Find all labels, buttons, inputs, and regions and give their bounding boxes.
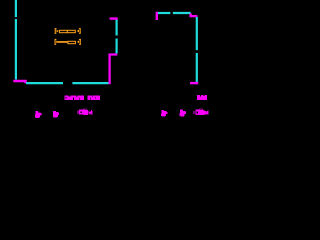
wire left vertical lower (cyan) bbox=[15, 19, 17, 80]
wire mid vertical lower segment (cyan) bbox=[115, 39, 117, 54]
component R1 (upper orange resistor-like symbol) bbox=[55, 28, 81, 34]
terminal left of top wire (magenta) bbox=[156, 12, 158, 20]
wire right vertical upper (cyan) bbox=[196, 17, 198, 50]
wire left vertical upper (cyan) bbox=[15, 0, 17, 17]
wire top horizontal left part (cyan) bbox=[158, 12, 171, 14]
label word B1 bbox=[64, 96, 84, 101]
label word B2 bbox=[88, 96, 100, 101]
label count blob 3 bbox=[161, 110, 167, 117]
wire mid vertical (magenta) bbox=[110, 55, 118, 85]
terminal top of mid vertical (magenta) bbox=[110, 17, 118, 19]
label word F (right MHz-like) bbox=[194, 109, 209, 116]
component R2 (lower orange resistor-like symbol) bbox=[55, 39, 81, 45]
wire top-right jog (magenta) bbox=[191, 13, 198, 16]
wire mid vertical upper segment (cyan) bbox=[115, 19, 117, 35]
label count blob 2 bbox=[53, 111, 59, 118]
wire top horizontal right part (cyan) bbox=[173, 12, 191, 14]
label count blob 1 bbox=[35, 111, 41, 118]
label word E (Vdd-like) bbox=[197, 95, 207, 100]
wire bottom-left jog (magenta) bbox=[13, 81, 25, 83]
label word C (left MHz-like) bbox=[78, 108, 93, 115]
label count blob 4 bbox=[180, 110, 186, 117]
terminal bottom of right vertical (magenta) bbox=[190, 82, 198, 84]
wire bottom horizontal right part (cyan) bbox=[72, 82, 108, 84]
wire bottom horizontal left part (cyan) bbox=[26, 82, 63, 84]
wire right vertical lower (cyan) bbox=[196, 53, 198, 83]
